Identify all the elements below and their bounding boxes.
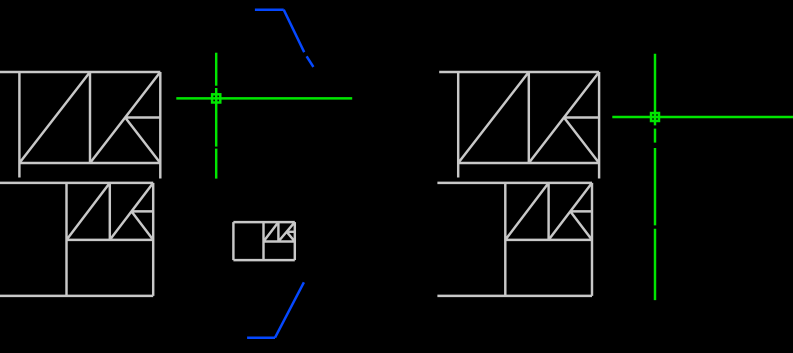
wire left post (504, 183, 506, 296)
wire diagonal (275, 282, 304, 337)
wire truss middle post (277, 222, 279, 241)
wire right post (159, 72, 161, 179)
wire middle post (89, 72, 91, 163)
wire left post (18, 72, 20, 178)
wire diagonal to corner (570, 211, 592, 240)
wire diagonal to corner (125, 118, 160, 164)
wire truss bottom (67, 239, 154, 241)
wire diagonal panel 1 (67, 183, 110, 240)
wire horizontal (247, 336, 275, 339)
wire vertical segment 1 (654, 54, 656, 126)
wire right post (591, 183, 593, 296)
wire bottom chord (458, 162, 599, 164)
wire diagonal panel 1 (264, 222, 279, 241)
wire diagonal to corner (132, 211, 154, 240)
wire top chord (0, 71, 160, 73)
node pickbox 1 (212, 94, 220, 102)
node blue-polyline-top (255, 10, 314, 67)
wire top chord (439, 71, 599, 73)
wire diagonal panel 1 (19, 72, 90, 163)
wire top (0, 182, 153, 184)
wire right post (152, 183, 154, 296)
wire left post (457, 72, 459, 178)
node truss-top-left (0, 72, 160, 179)
wire horizontal (612, 116, 793, 118)
wire diagonal panel 2 (278, 222, 294, 241)
wire vertical lower (215, 149, 217, 179)
wire diagonal panel 2 (549, 183, 592, 240)
wire bottom chord (19, 162, 160, 164)
wire middle post (528, 72, 530, 163)
wire left post (232, 222, 234, 260)
wire bottom (233, 259, 294, 261)
wire diagonal panel 1 (458, 72, 529, 163)
wire top (233, 221, 294, 223)
wire horizontal (255, 8, 284, 11)
wire mid horizontal (132, 210, 154, 212)
node blue-polyline-bottom (247, 282, 304, 337)
wire mid horizontal (564, 116, 599, 118)
wire middle post (262, 222, 264, 260)
wire diagonal panel 2 (90, 72, 160, 163)
wire bottom (437, 295, 592, 297)
wire right post (294, 222, 296, 260)
wire diagonal to corner (287, 232, 295, 242)
wire mid horizontal (125, 116, 160, 118)
wire truss middle post (109, 183, 111, 240)
wire vertical segment 2 (654, 129, 656, 143)
node crosshair-2 (612, 54, 793, 300)
node house-bottom-right (437, 183, 592, 296)
node crosshair-1 (176, 53, 352, 179)
wire mid horizontal (287, 231, 295, 233)
wire bottom (0, 295, 153, 297)
wire diagonal panel 1 (505, 183, 548, 240)
wire truss bottom (505, 239, 592, 241)
wire diagonal panel 2 (110, 183, 153, 240)
wire vertical segment 3 (654, 148, 656, 225)
wire horizontal (176, 97, 352, 99)
wire vertical upper (215, 53, 217, 86)
node pickbox 2 (651, 113, 659, 121)
wire vertical middle (215, 88, 217, 147)
node house-bottom-left (0, 183, 153, 296)
node small-structure (233, 222, 294, 260)
wire truss bottom (264, 240, 295, 242)
wire left post (65, 183, 67, 296)
wire diagonal lower part (307, 56, 314, 67)
wire mid horizontal (570, 210, 592, 212)
wire top (437, 182, 592, 184)
node truss-top-right (439, 72, 599, 179)
wire diagonal panel 2 (529, 72, 599, 163)
wire vertical segment 4 (654, 229, 656, 300)
wire diagonal to corner (564, 118, 599, 164)
wire truss middle post (547, 183, 549, 240)
wire diagonal upper part (284, 10, 305, 53)
wire right post (598, 72, 600, 179)
